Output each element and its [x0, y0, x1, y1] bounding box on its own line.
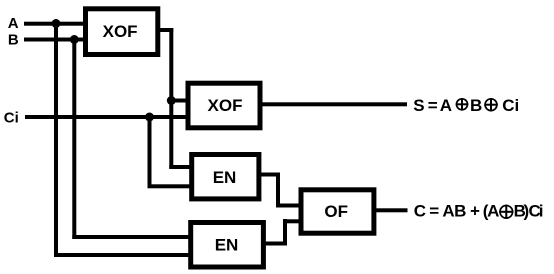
- xor symbol in C equation: [499, 205, 513, 219]
- wire AND2 output vertical: [283, 219, 287, 245]
- node A-xor-B junction: [167, 96, 176, 105]
- wire B vertical drop: [72, 38, 76, 240]
- svg-text:A: A: [442, 201, 454, 220]
- wire into OR lower input: [283, 219, 301, 223]
- node B junction: [70, 35, 79, 44]
- wire A vertical drop: [54, 22, 58, 257]
- wire Ci horizontal: [25, 115, 188, 119]
- svg-text:B: B: [454, 201, 466, 220]
- xor symbol 2 in S equation: [484, 98, 497, 111]
- wire AND1 output vertical: [276, 173, 280, 208]
- wire C output: [371, 208, 408, 212]
- wire XOR1 output vertical: [169, 28, 173, 169]
- svg-text:S: S: [413, 96, 424, 115]
- AND gate U4 box: [191, 223, 264, 268]
- svg-text:Ci: Ci: [502, 96, 519, 115]
- svg-text:A: A: [8, 15, 19, 32]
- node A junction: [52, 19, 61, 28]
- svg-text:+: +: [470, 201, 480, 220]
- wire AND1 output: [260, 173, 281, 177]
- XOR gate U2 box: [188, 83, 260, 128]
- wire into OR upper input: [276, 204, 301, 208]
- svg-text:XOF: XOF: [103, 22, 138, 41]
- svg-text:EN: EN: [213, 168, 237, 187]
- svg-text:A: A: [487, 201, 499, 220]
- wire AND2 output: [263, 242, 287, 246]
- XOR gate U1 box: [86, 9, 158, 55]
- label output C equation: [414, 201, 544, 220]
- svg-text:=: =: [429, 201, 439, 220]
- AND gate U3 box: [192, 155, 259, 199]
- wire Ci vertical drop: [148, 115, 152, 188]
- svg-text:OF: OF: [324, 202, 348, 221]
- svg-text:=: =: [428, 96, 438, 115]
- svg-text:i: i: [539, 201, 544, 220]
- svg-text:Ci: Ci: [4, 109, 19, 126]
- wire A horizontal: [24, 22, 84, 26]
- wire S output: [261, 102, 407, 106]
- svg-text:B: B: [8, 31, 19, 48]
- wire B horizontal: [24, 38, 84, 42]
- svg-text:C: C: [414, 201, 426, 220]
- svg-text:A: A: [440, 96, 452, 115]
- wire XOR1 output: [158, 28, 173, 32]
- svg-text:XOF: XOF: [208, 96, 243, 115]
- wire into AND1 upper input: [169, 165, 192, 169]
- wire B bottom run to AND2: [72, 235, 190, 239]
- node Ci junction: [145, 113, 154, 122]
- svg-text:B: B: [470, 96, 482, 115]
- svg-text:EN: EN: [215, 236, 239, 255]
- wire A bottom run to AND2: [54, 253, 191, 257]
- wire branch to XOR2 upper input: [169, 99, 188, 103]
- xor symbol 1 in S equation: [456, 98, 469, 111]
- wire Ci run to AND1: [148, 184, 192, 188]
- OR gate U5 box: [301, 190, 374, 233]
- label output S equation: [413, 96, 519, 115]
